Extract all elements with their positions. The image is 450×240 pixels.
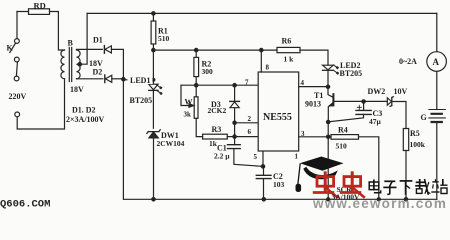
wire W wiper bbox=[181, 85, 191, 105]
switch K terminal 2 bbox=[14, 57, 19, 62]
node R1 top bbox=[152, 12, 155, 15]
svg-text:8: 8 bbox=[266, 64, 270, 72]
node rectifier out bbox=[122, 78, 125, 81]
wire R6 right to LED2 bbox=[300, 50, 328, 65]
char xia bbox=[400, 181, 413, 195]
svg-text:R6: R6 bbox=[282, 37, 292, 46]
resistor R6 bbox=[277, 47, 300, 52]
wire secondary bottom to D2 bbox=[77, 78, 103, 80]
svg-text:3A/100V: 3A/100V bbox=[332, 193, 361, 202]
svg-text:D2: D2 bbox=[93, 68, 103, 77]
switch K terminal 1 bbox=[15, 39, 20, 44]
svg-text:K: K bbox=[7, 44, 14, 53]
svg-text:1: 1 bbox=[295, 153, 299, 161]
svg-text:Q606.COM: Q606.COM bbox=[0, 199, 50, 211]
resistor R5 bbox=[403, 129, 408, 151]
node C2 bottom bbox=[262, 198, 265, 201]
LED1 arrows bbox=[156, 85, 160, 88]
svg-text:2×3A/100V: 2×3A/100V bbox=[66, 115, 105, 124]
svg-text:5: 5 bbox=[254, 153, 258, 161]
DC top rail bbox=[87, 12, 437, 14]
switch K blade bbox=[10, 44, 16, 53]
svg-text:47µ: 47µ bbox=[369, 117, 382, 126]
resistor R1 bbox=[152, 13, 154, 21]
svg-text:BT205: BT205 bbox=[130, 96, 153, 105]
wire pin5 stub bbox=[262, 151, 264, 166]
svg-text:3: 3 bbox=[301, 130, 305, 138]
wire rail to ammeter bbox=[436, 13, 438, 51]
wire mains bottom bbox=[17, 79, 64, 129]
node R3 pin6 bbox=[233, 135, 236, 138]
svg-text:3k: 3k bbox=[184, 111, 192, 119]
svg-text:6: 6 bbox=[248, 128, 252, 136]
watermark graduation cap bbox=[296, 157, 344, 193]
wire W bottom to R3 bbox=[196, 118, 202, 136]
wire switch link bbox=[16, 62, 17, 76]
wire pin6 bbox=[235, 136, 259, 138]
wire switch top bbox=[16, 12, 18, 39]
LED2 bbox=[323, 65, 334, 70]
watermark chongchong red (drawn) bbox=[313, 171, 365, 198]
wire C1 bottom to pin5 bbox=[234, 149, 263, 167]
node center tap bbox=[78, 62, 81, 65]
resistor R3 bbox=[203, 134, 228, 139]
potentiometer W bbox=[194, 97, 198, 119]
svg-text:RD: RD bbox=[34, 1, 46, 11]
second bug char bbox=[340, 171, 365, 198]
wire R1 bottom to LED1 bbox=[152, 50, 154, 83]
char dian bbox=[369, 180, 381, 193]
transistor T1 bbox=[328, 87, 333, 98]
wire rectifier to LED1 column bbox=[123, 79, 153, 81]
svg-text:2CW104: 2CW104 bbox=[157, 139, 185, 148]
node scr bottom bbox=[327, 198, 330, 201]
wire T1 base to DW2 bbox=[334, 100, 387, 102]
transformer B primary bbox=[61, 50, 65, 79]
battery G bbox=[429, 110, 445, 118]
watermark site name (drawn hanzi) bbox=[369, 179, 447, 195]
node C3 top bbox=[362, 100, 365, 103]
svg-text:2.2 µ: 2.2 µ bbox=[214, 152, 230, 161]
node T1 emitter bbox=[327, 120, 330, 123]
wire center tap to top rail bbox=[80, 13, 87, 64]
wire DW2 to R5 bbox=[393, 102, 406, 129]
IC NE555 box bbox=[258, 72, 299, 151]
capacitor C2 bbox=[256, 175, 271, 178]
svg-text:R5: R5 bbox=[410, 129, 420, 138]
wire D2 out bbox=[112, 78, 124, 80]
resistor R2 bbox=[195, 50, 197, 57]
220V plug terminal bbox=[15, 112, 20, 117]
svg-text:W: W bbox=[185, 98, 193, 107]
svg-text:10V: 10V bbox=[394, 87, 408, 96]
svg-text:2: 2 bbox=[248, 115, 252, 123]
capacitor C3 bbox=[356, 110, 371, 114]
svg-text:A: A bbox=[433, 57, 440, 67]
svg-text:100k: 100k bbox=[410, 140, 426, 149]
svg-text:220V: 220V bbox=[9, 92, 27, 101]
svg-text:D1. D2: D1. D2 bbox=[72, 106, 96, 115]
resistor R4 bbox=[331, 135, 359, 140]
wire mains top bbox=[17, 12, 65, 51]
node DW1 bottom rail bbox=[152, 198, 155, 201]
svg-text:DW2: DW2 bbox=[368, 87, 386, 96]
svg-text:2CK2: 2CK2 bbox=[208, 106, 227, 115]
svg-text:4: 4 bbox=[301, 79, 305, 87]
wire pin4 bbox=[299, 86, 328, 88]
wire pin3 bbox=[299, 136, 331, 138]
node D3 top bbox=[233, 84, 236, 87]
W wiper arrow bbox=[189, 104, 194, 108]
ammeter A bbox=[427, 52, 447, 72]
wire rectifier to bottom rail bbox=[122, 79, 124, 199]
wire ammeter to battery bbox=[436, 71, 438, 109]
node pin3 scr bbox=[327, 135, 330, 138]
svg-text:103: 103 bbox=[273, 180, 285, 189]
node T1 collector bbox=[326, 85, 329, 88]
svg-text:1 k: 1 k bbox=[284, 55, 295, 64]
wire +V mid rail bbox=[153, 49, 277, 51]
zener DW1 bbox=[147, 130, 160, 134]
node R4 bottom bbox=[377, 198, 380, 201]
svg-text:LED1: LED1 bbox=[130, 76, 150, 85]
first bug char bbox=[313, 171, 338, 198]
LED2 arrows bbox=[333, 65, 336, 67]
svg-text:NE555: NE555 bbox=[263, 112, 292, 123]
zener DW2 bbox=[387, 98, 391, 105]
wire pin2 bbox=[235, 122, 259, 124]
wire R4 right bbox=[359, 137, 379, 200]
node R2 bottom bbox=[195, 84, 198, 87]
svg-text:R3: R3 bbox=[212, 125, 222, 134]
wire C2 bbox=[263, 166, 265, 199]
svg-text:9013: 9013 bbox=[305, 100, 321, 109]
switch K terminal 3 bbox=[14, 76, 19, 81]
wire SCR anode bbox=[327, 122, 329, 199]
diode D1 bbox=[103, 46, 105, 54]
wire net pin7 bbox=[181, 84, 258, 86]
node R5 bottom bbox=[404, 198, 407, 201]
svg-text:B: B bbox=[68, 39, 74, 48]
wire battery to rail bbox=[436, 123, 438, 199]
C3 plus bbox=[357, 105, 361, 109]
svg-text:R4: R4 bbox=[338, 126, 348, 135]
svg-text:0~2A: 0~2A bbox=[399, 57, 417, 66]
diode D2 bbox=[104, 75, 106, 83]
wire pin8 stub bbox=[260, 50, 262, 72]
wire emitter to C3 bottom bbox=[328, 114, 363, 121]
svg-text:7: 7 bbox=[245, 79, 249, 87]
svg-text:510: 510 bbox=[158, 34, 170, 43]
char zi bbox=[383, 181, 396, 194]
node R2 top bbox=[195, 48, 198, 51]
fuse RD bbox=[29, 9, 50, 15]
white mask under LED1 label bbox=[128, 74, 153, 85]
node pin8 bbox=[260, 48, 263, 51]
node pin5 bbox=[261, 165, 264, 168]
svg-text:BT205: BT205 bbox=[340, 69, 363, 78]
wire R3 right bbox=[227, 136, 234, 138]
capacitor C1 bbox=[228, 145, 241, 149]
wire D1 out bbox=[111, 49, 123, 79]
node D3 pin2 bbox=[233, 121, 236, 124]
char zhan bbox=[431, 179, 447, 194]
transformer B core bbox=[69, 48, 71, 82]
diode D3 bbox=[234, 85, 236, 101]
svg-text:300: 300 bbox=[202, 67, 214, 76]
svg-text:D1: D1 bbox=[93, 36, 103, 45]
svg-text:510: 510 bbox=[336, 142, 348, 151]
node LED column bbox=[152, 78, 155, 81]
node R1 bottom bbox=[152, 48, 155, 51]
LED1 bbox=[149, 84, 158, 90]
svg-text:18V: 18V bbox=[70, 85, 84, 94]
transformer B secondary bbox=[77, 50, 81, 79]
char zai bbox=[415, 179, 430, 195]
wire secondary top to D1 bbox=[77, 48, 103, 50]
svg-text:G: G bbox=[421, 113, 427, 122]
bottom rail bbox=[124, 198, 437, 200]
